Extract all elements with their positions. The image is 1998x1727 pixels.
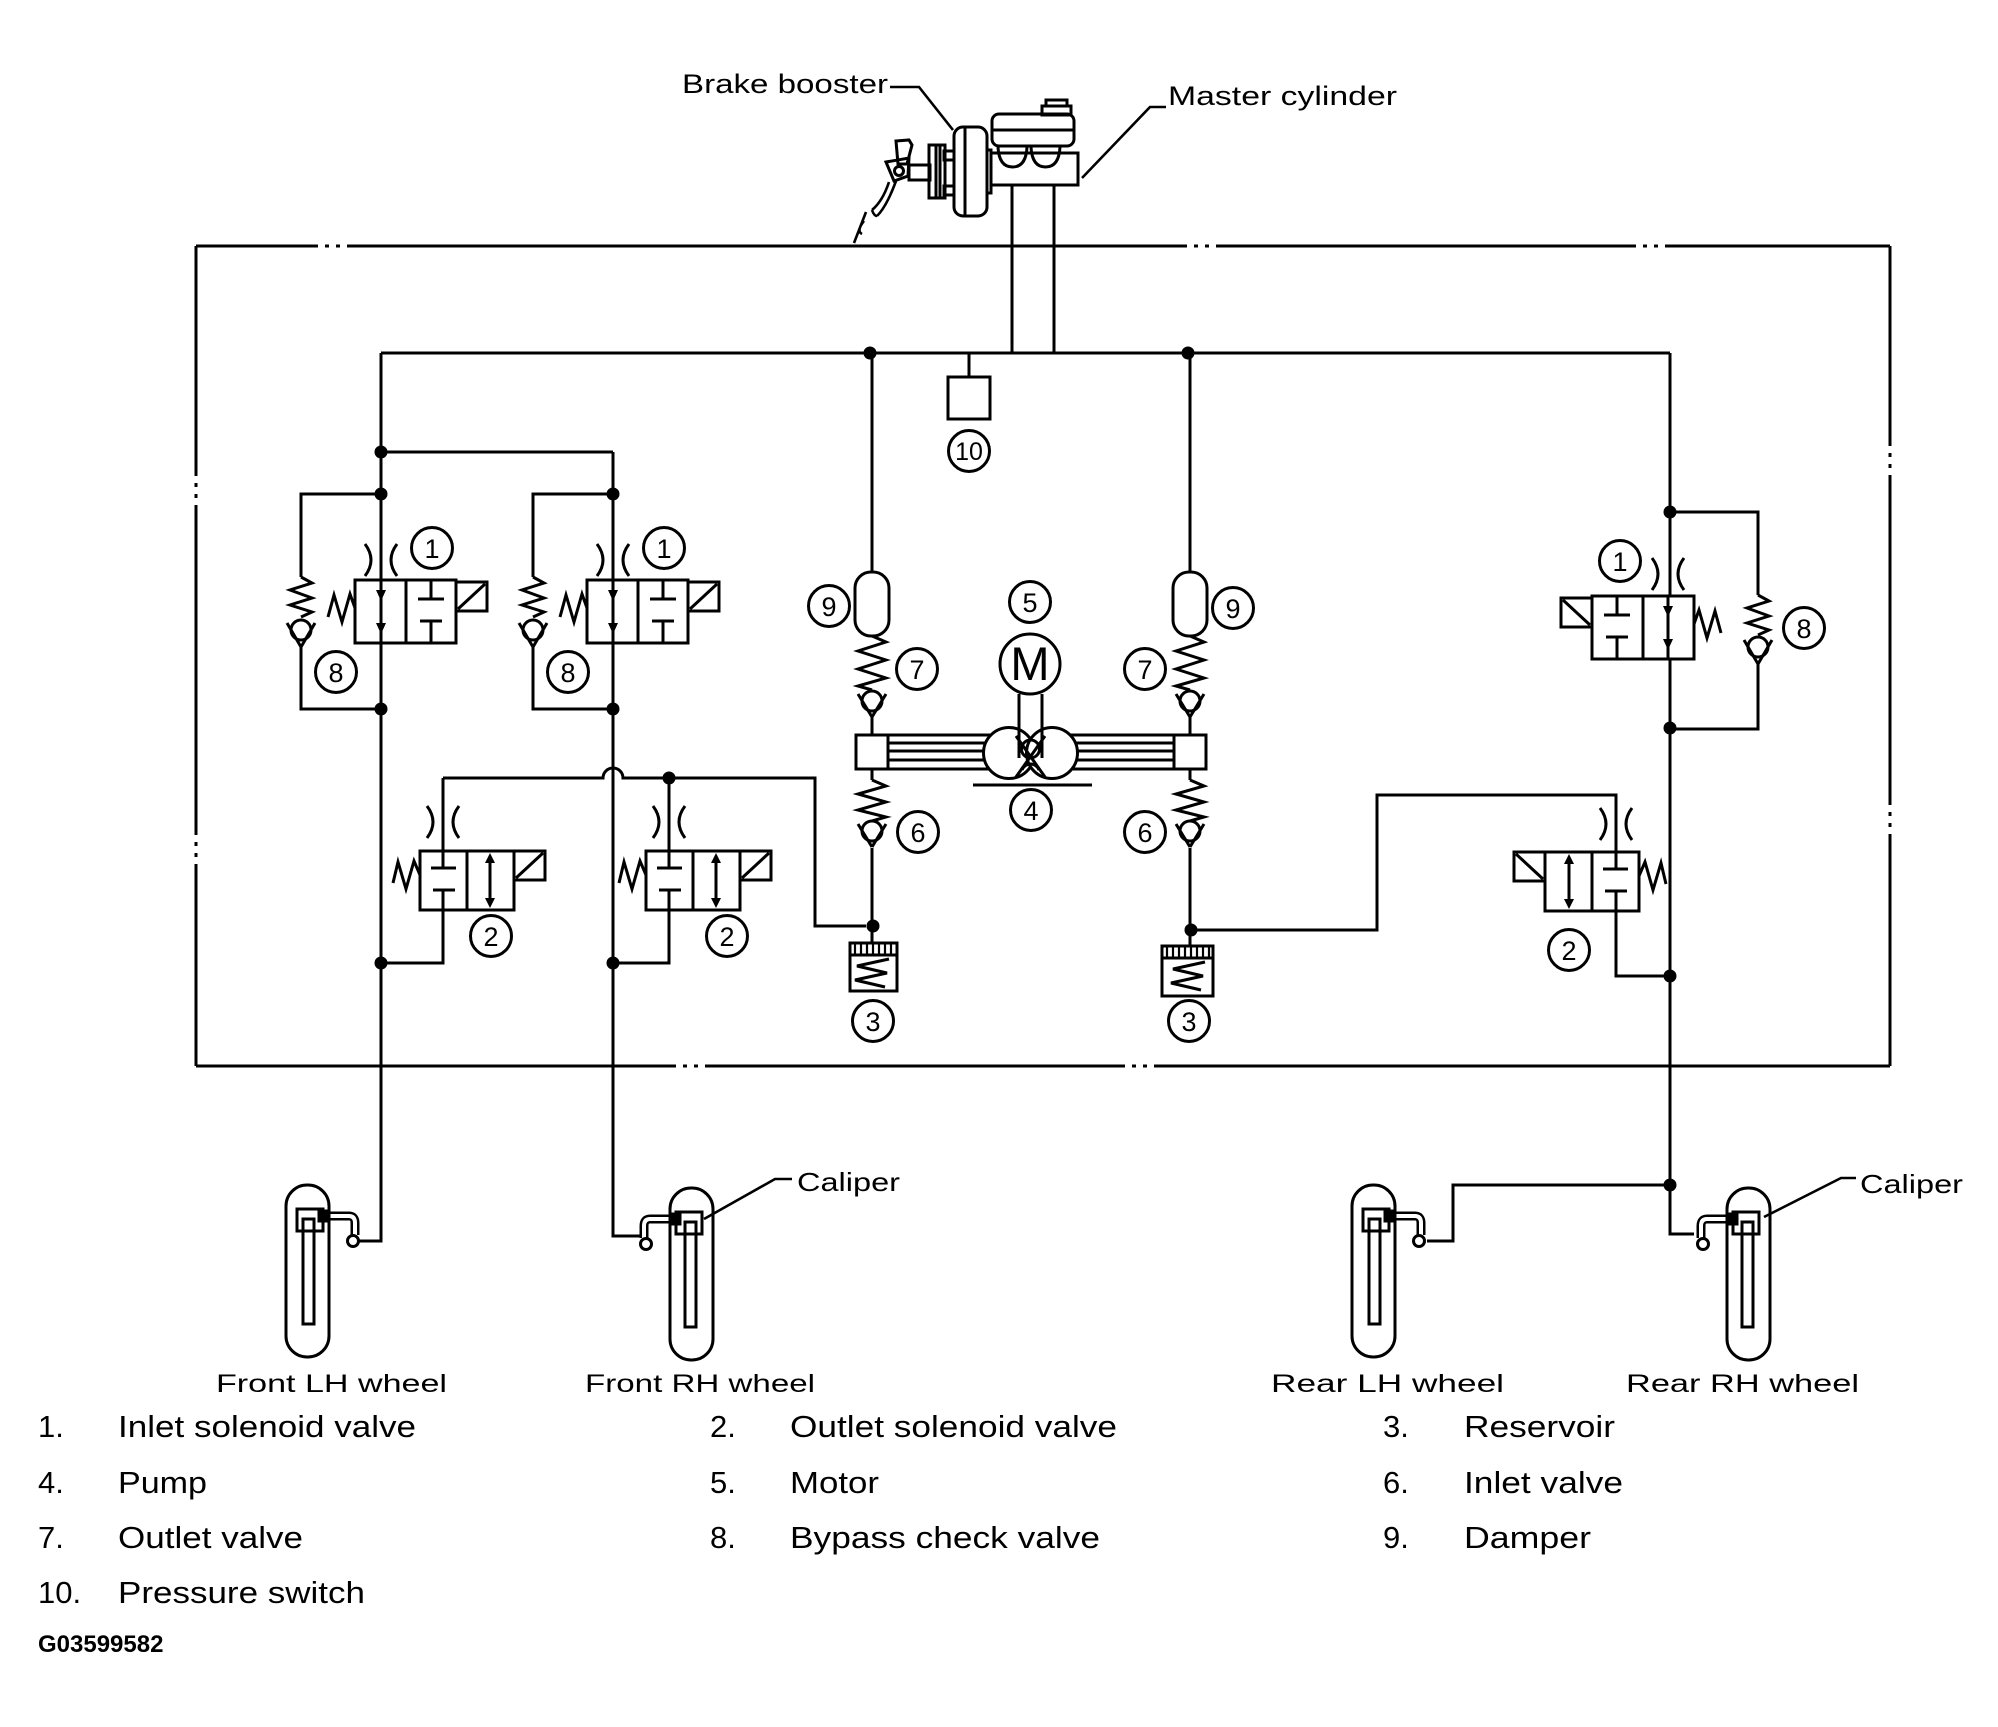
valve 2 FR closed port [657,851,682,910]
svg-text:3: 3 [1181,1007,1196,1037]
valve 2 RR return spring [1639,862,1666,890]
caliper rear LH wheel [1352,1185,1425,1357]
valve 1 FR throttle marks [597,544,629,576]
caliper leader rear [1764,1178,1856,1217]
svg-text:3: 3 [865,1007,880,1037]
svg-text:2.: 2. [710,1409,736,1444]
caliper leader front [704,1179,792,1219]
valve 1 FL return spring [328,594,355,622]
brake booster leader line [890,87,953,130]
valve 1 RR throttle marks [1652,558,1684,590]
svg-text:Reservoir: Reservoir [1464,1409,1615,1444]
valve 1 FR flow path [612,580,615,643]
svg-text:9: 9 [821,592,836,622]
inlet solenoid valve 1 (front RH) body [587,580,688,643]
node collector at outlet valve 2 [663,772,676,785]
wire front outlet-valve collector with crossover hop [443,768,866,926]
inlet valve 6 front spring [858,780,886,821]
caliper front RH wheel [641,1188,714,1360]
master cylinder outlet pipe [1012,185,1054,353]
inlet solenoid valve 1 (front LH) body [355,580,456,643]
outlet valve 7 front spring [858,636,886,690]
svg-text:Pump: Pump [118,1465,207,1500]
label circle 5 motor [1010,582,1051,623]
node manifold left damper junction [864,347,877,360]
valve 2 FL relief path [489,856,492,905]
valve 2 FR solenoid [740,851,771,880]
bypass check valve 8 RR ball [1748,637,1768,657]
outlet solenoid valve 2 (front LH) body [420,851,514,910]
boundary left edge [195,246,198,1066]
label circle 1 front RH [644,528,685,569]
svg-text:1: 1 [656,534,671,564]
node rear bypass top [1664,506,1677,519]
svg-text:2: 2 [1561,936,1576,966]
valve 2 RR relief path [1568,857,1571,906]
valve 2 FL return spring [393,861,420,889]
svg-text:8.: 8. [710,1520,736,1555]
node rear bypass bottom [1664,722,1677,735]
node front LH bypass top [375,488,388,501]
wire front LH circuit main line [359,353,381,1241]
bypass check valve 8 RR spring [1747,595,1769,635]
wire front RH bypass loop [533,494,613,709]
label circle 8 front LH [316,652,357,693]
svg-text:Master cylinder: Master cylinder [1168,81,1397,111]
boundary right edge [1889,246,1892,1066]
motor 5 drive shafts [1019,694,1042,758]
pump 4 right hose bundle [1046,735,1174,769]
node front RH bypass bottom [607,703,620,716]
motor 5 circle [1000,634,1060,694]
svg-text:Motor: Motor [790,1465,879,1500]
pedal foot stroke [854,212,866,243]
damper 9 rear (capsule) [1173,572,1207,636]
svg-text:Rear RH wheel: Rear RH wheel [1626,1370,1859,1398]
svg-text:6.: 6. [1383,1465,1409,1500]
wire rear circuit main line [1670,353,1694,1234]
svg-text:M: M [1010,637,1049,690]
svg-text:8: 8 [560,658,575,688]
reservoir 3 rear hatching [1167,946,1209,958]
wire pressure switch stub [968,353,971,377]
pedal pushrod [909,165,930,180]
bypass check valve 8 FL ball [291,620,311,640]
outlet valve 7 rear check ball [1180,691,1200,711]
valve 1 FR closed port [650,580,676,643]
label circle 9 rear [1213,588,1254,629]
svg-text:4: 4 [1023,796,1038,826]
valve 1 FR solenoid [688,582,719,611]
wire rear bypass loop [1670,512,1758,729]
svg-text:3.: 3. [1383,1409,1409,1444]
node front RH outlet valve return [607,957,620,970]
wire front outlet valve 1 ports [381,778,443,963]
svg-text:7.: 7. [38,1520,64,1555]
reservoir 3 front hatching [855,943,891,955]
svg-text:Brake booster: Brake booster [682,69,888,99]
valve 1 RR solenoid [1561,598,1592,627]
label circle 6 rear [1125,812,1166,853]
svg-text:Inlet solenoid valve: Inlet solenoid valve [118,1409,416,1444]
master cylinder body [991,153,1078,185]
svg-text:Bypass check valve: Bypass check valve [790,1520,1100,1555]
wire rear outlet valve ports [1191,795,1670,976]
wire front outlet valve 2 ports [613,778,669,963]
svg-text:Pressure switch: Pressure switch [118,1575,365,1610]
node front LH bypass bottom [375,703,388,716]
master cylinder port bowl right [1031,147,1060,167]
svg-text:2: 2 [719,922,734,952]
svg-text:Outlet solenoid valve: Outlet solenoid valve [790,1409,1117,1444]
master cylinder reservoir tank [992,114,1074,146]
outlet valve 7 front check ball [862,691,882,711]
svg-text:1.: 1. [38,1409,64,1444]
reservoir 3 front spring [855,959,889,987]
inlet valve 6 rear check ball [1180,821,1200,841]
bypass check valve 8 FR ball [523,620,543,640]
main brake line manifold [381,352,1670,355]
bypass check valve 8 FL spring [290,577,312,617]
valve 2 RR closed port [1603,852,1628,911]
node rear outlet valve return [1664,970,1677,983]
outlet solenoid valve 2 (rear) body [1545,852,1639,911]
label circle 1 front LH [412,528,453,569]
hydraulic unit boundary (chain-line box) [196,246,1890,1066]
svg-text:G03599582: G03599582 [38,1631,163,1658]
pump 4 eccentric [1022,740,1040,758]
valve 2 RR solenoid [1514,852,1545,881]
label circle 8 rear [1784,608,1825,649]
svg-text:9.: 9. [1383,1520,1409,1555]
valve 2 FL closed port [431,851,456,910]
pump 4 baseline [973,784,1092,787]
pump 4 left hose bundle [888,735,1016,769]
label circle 6 front [898,812,939,853]
valve 2 FL solenoid [514,851,545,880]
svg-text:Rear LH wheel: Rear LH wheel [1271,1370,1504,1398]
svg-text:6: 6 [1137,818,1152,848]
booster tie bar upper [944,151,954,160]
valve 2 RR throttle marks [1600,808,1632,840]
svg-text:6: 6 [910,818,925,848]
valve 1 RR return spring [1694,610,1721,638]
svg-text:4.: 4. [38,1465,64,1500]
svg-text:Outlet valve: Outlet valve [118,1520,303,1555]
pump 4 left port block [856,735,888,769]
reservoir 3 rear body [1162,946,1213,996]
svg-text:5.: 5. [710,1465,736,1500]
pedal arm [872,181,896,216]
master cylinder leader line [1082,107,1166,178]
valve 2 FL throttle marks [427,806,459,838]
valve 1 FR return spring [560,594,587,622]
label circle 2 rear [1549,930,1590,971]
label circle 10 pressure switch [949,431,990,472]
inlet valve 6 rear spring [1176,780,1204,821]
node front RH bypass top [607,488,620,501]
svg-text:Caliper: Caliper [1860,1169,1963,1199]
valve 1 FL flow path [380,580,383,643]
pump 4 body circles [984,728,1035,779]
outlet solenoid valve 2 (front RH) body [646,851,740,910]
caliper front LH wheel [286,1185,359,1357]
valve 1 FL solenoid [456,582,487,611]
bypass check valve 8 FR spring [522,577,544,617]
node front LH / front RH branch [375,446,388,459]
label circle 3 front [853,1001,894,1042]
label circle 3 rear [1169,1001,1210,1042]
svg-text:7: 7 [1137,655,1152,685]
node front reservoir junction [867,920,880,933]
wire rear damper branch [1189,353,1192,946]
inlet valve 6 front check ball [862,821,882,841]
label circle 7 rear [1125,649,1166,690]
inlet solenoid valve 1 (rear) body [1592,596,1694,659]
label circle 4 pump [1011,790,1052,831]
svg-text:10: 10 [955,438,983,466]
boundary bottom edge [196,1065,1890,1068]
svg-text:5: 5 [1022,588,1037,618]
reservoir 3 front body [850,943,897,991]
wire branch to rear LH caliper [1427,1185,1670,1241]
boundary top edge [196,245,1890,248]
svg-text:2: 2 [483,922,498,952]
pressure switch 10 box [948,377,990,419]
outlet valve 7 rear spring [1176,636,1204,690]
wire front RH circuit main line [613,452,640,1236]
master cylinder cap [1046,100,1067,106]
valve 2 FR relief path [715,856,718,905]
booster tie bar lower [944,186,954,195]
svg-text:9: 9 [1225,594,1240,624]
node rear reservoir junction [1185,924,1198,937]
master cylinder port bowl left [998,147,1027,167]
pedal pivot [895,167,904,176]
damper 9 front (capsule) [855,572,889,636]
svg-text:1: 1 [1612,547,1627,577]
svg-text:Front RH wheel: Front RH wheel [585,1370,815,1398]
pedal bracket [886,158,909,181]
node manifold right damper junction [1182,347,1195,360]
svg-text:Inlet valve: Inlet valve [1464,1465,1623,1500]
valve 2 FR throttle marks [653,806,685,838]
node front LH outlet valve return [375,957,388,970]
svg-text:Caliper: Caliper [797,1167,900,1197]
label circle 2 front RH [707,916,748,957]
pedal plate [896,140,912,164]
svg-text:10.: 10. [38,1575,81,1610]
booster to master-cylinder flange [987,150,991,193]
valve 1 RR closed port [1604,596,1630,659]
node rear LH caliper branch [1664,1179,1677,1192]
svg-text:Damper: Damper [1464,1520,1591,1555]
svg-text:Front LH wheel: Front LH wheel [216,1370,447,1398]
label circle 8 front RH [548,652,589,693]
wire front LH bypass loop [301,494,381,709]
valve 1 FL closed port [418,580,444,643]
reservoir 3 rear spring [1171,962,1205,990]
label circle 1 rear [1600,541,1641,582]
caliper rear RH wheel [1698,1188,1771,1360]
brake booster rear shell [954,127,987,216]
valve 1 FL throttle marks [365,544,397,576]
svg-text:7: 7 [909,655,924,685]
svg-text:1: 1 [424,534,439,564]
wire front damper branch [871,353,874,943]
pump 4 right port block [1174,735,1206,769]
label circle 7 front [897,649,938,690]
label circle 2 front LH [471,916,512,957]
svg-text:8: 8 [328,658,343,688]
valve 1 RR flow path [1667,596,1670,659]
brake booster front flange [929,145,945,198]
valve 2 FR return spring [619,861,646,889]
label circle 9 front [809,586,850,627]
wire branch to front RH circuit [381,451,613,454]
svg-text:8: 8 [1796,614,1811,644]
